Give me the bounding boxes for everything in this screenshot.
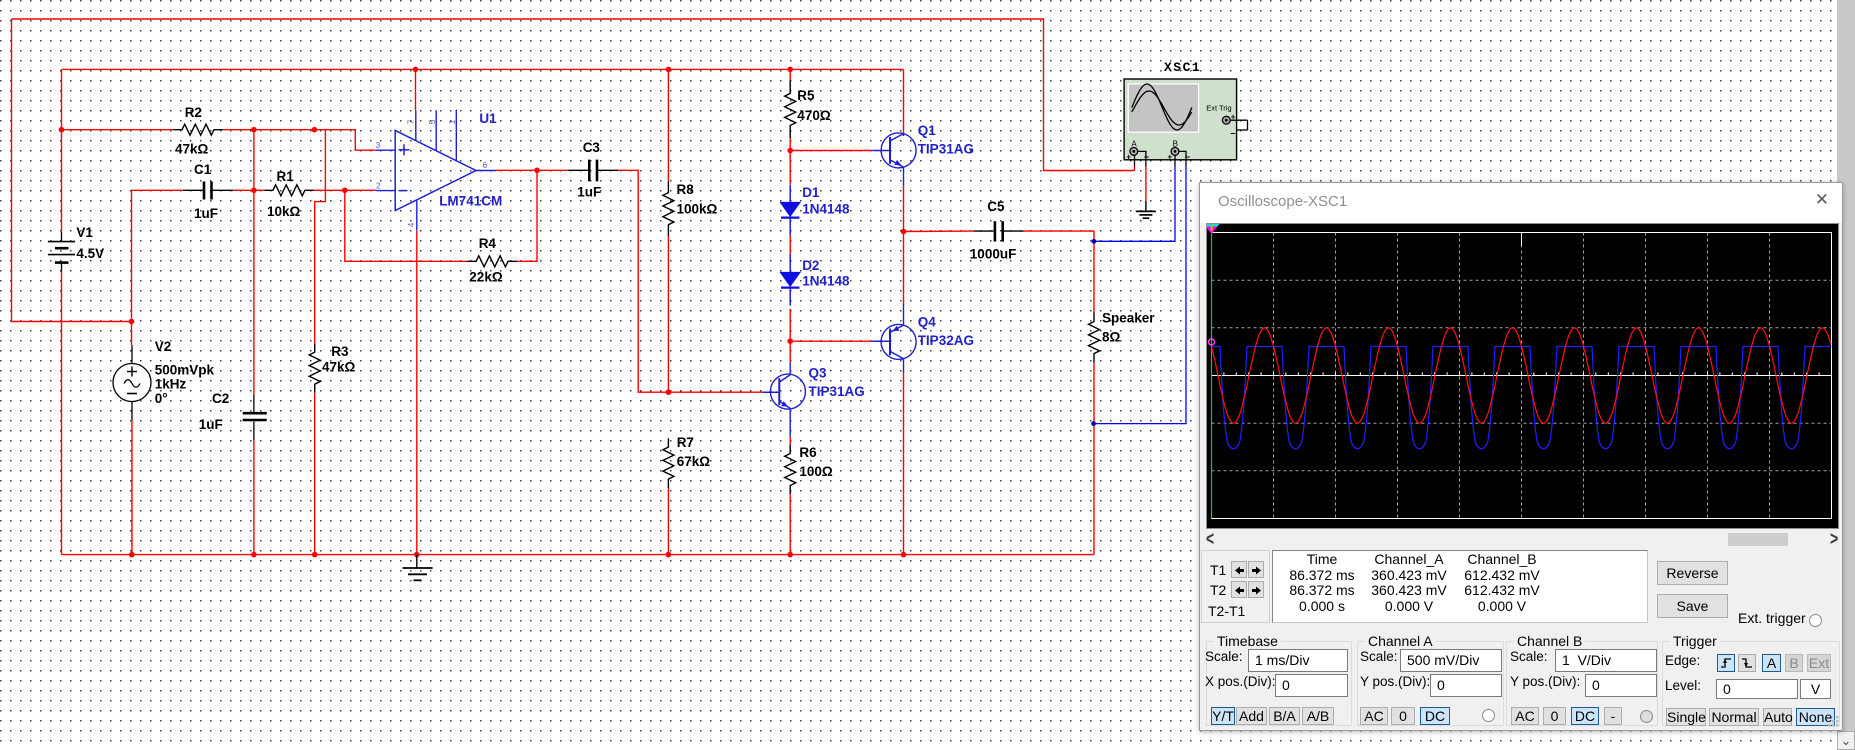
oscilloscope icon XSC1 bbox=[1124, 79, 1237, 160]
oscilloscope window bbox=[1199, 182, 1843, 731]
node R5 on rail bbox=[787, 67, 793, 73]
wire V1 branch vertical bbox=[61, 69, 63, 231]
trigger marker bbox=[1203, 223, 1220, 234]
resistor R4 bbox=[467, 256, 517, 267]
node Q4 base/D2 bbox=[787, 338, 793, 344]
svg-text:67kΩ: 67kΩ bbox=[677, 454, 711, 469]
wire Q1 emitter to output node bbox=[903, 185, 905, 232]
lead A+ bbox=[1134, 155, 1136, 166]
svg-text:4.5V: 4.5V bbox=[76, 246, 104, 261]
scope left cursor green bbox=[1211, 233, 1213, 519]
resistor R5 bbox=[785, 81, 796, 139]
wire C1 left stub bbox=[132, 189, 183, 191]
svg-text:100Ω: 100Ω bbox=[799, 464, 833, 479]
wire R7 bottom to rail bbox=[667, 488, 669, 555]
wire Q1 collector from rail bbox=[903, 69, 905, 133]
svg-text:R1: R1 bbox=[277, 169, 295, 184]
svg-text:+: + bbox=[1168, 153, 1173, 162]
svg-text:R2: R2 bbox=[185, 105, 202, 120]
svg-text:8Ω: 8Ω bbox=[1102, 330, 1121, 345]
svg-text:470Ω: 470Ω bbox=[797, 108, 831, 123]
resistor R2 bbox=[173, 124, 223, 135]
node Q1 base/D1 bbox=[787, 148, 793, 154]
wire C2 branch vertical bbox=[253, 130, 255, 395]
node R8 on rail bbox=[666, 67, 672, 73]
wire D1 top bbox=[789, 151, 791, 185]
wire C5 to speaker bbox=[1024, 231, 1094, 312]
scope plot frame bbox=[1212, 233, 1832, 519]
Save button bbox=[1657, 594, 1728, 618]
svg-text:R6: R6 bbox=[799, 445, 817, 460]
horizontal scroll strip bbox=[1202, 530, 1842, 548]
wire node to C5 bbox=[904, 230, 974, 232]
op-amp U1 bbox=[395, 130, 476, 210]
wire D1-D2 link bbox=[789, 236, 791, 255]
wire output node to Q4 emitter bbox=[903, 232, 905, 305]
wire Q4 collector to rail bbox=[903, 372, 905, 555]
capacitor C3 bbox=[568, 169, 588, 171]
lead A- bbox=[1138, 151, 1146, 166]
node B- tap bbox=[1091, 421, 1096, 426]
resistor R6 bbox=[785, 445, 796, 494]
node R7 on rail bbox=[666, 552, 672, 558]
svg-text:Ext Trig: Ext Trig bbox=[1206, 104, 1231, 113]
channel B wave blue bbox=[1212, 347, 1832, 449]
Ext trigger bbox=[1738, 610, 1806, 626]
source V2 bbox=[131, 345, 133, 364]
node R6 on rail bbox=[787, 552, 793, 558]
battery V1 bbox=[61, 232, 63, 242]
svg-text:500mVpk: 500mVpk bbox=[155, 363, 215, 378]
node R7 top on base wire bbox=[666, 389, 672, 395]
wire C3 to Q3 base bbox=[618, 170, 763, 392]
node pin7 on rail bbox=[413, 67, 419, 73]
resistor R1 bbox=[264, 185, 313, 196]
svg-text:R5: R5 bbox=[797, 88, 815, 103]
svg-text:2: 2 bbox=[376, 181, 381, 191]
svg-text:V1: V1 bbox=[76, 225, 93, 240]
wire top outer loop to scope A bbox=[12, 19, 1135, 171]
node ground on rail bbox=[414, 552, 420, 558]
wire R2 row bbox=[62, 130, 376, 151]
node R2 left on V1 wire bbox=[59, 127, 65, 133]
node op-amp output bbox=[534, 168, 540, 174]
node C2 top crossing bbox=[251, 188, 257, 194]
scope center axis bbox=[1212, 375, 1832, 377]
svg-text:1: 1 bbox=[447, 119, 457, 124]
svg-text:XSC1: XSC1 bbox=[1164, 60, 1201, 75]
svg-text:1kHz: 1kHz bbox=[155, 377, 187, 392]
svg-text:C3: C3 bbox=[583, 140, 601, 155]
node R3 on rail bbox=[312, 552, 318, 558]
svg-text:R8: R8 bbox=[677, 182, 695, 197]
canvas vertical scrollbar bbox=[1837, 0, 1855, 750]
svg-text:R7: R7 bbox=[677, 435, 694, 450]
node R2 right bias bbox=[312, 127, 318, 133]
svg-text:6: 6 bbox=[483, 160, 488, 170]
wire scope A- to ground bbox=[1145, 167, 1147, 201]
resistor R7 bbox=[663, 438, 674, 488]
resistor R3 bbox=[309, 344, 320, 393]
wire pin7 supply bbox=[415, 69, 417, 110]
svg-text:R4: R4 bbox=[479, 236, 497, 251]
scope gridlines bbox=[1273, 233, 1275, 519]
svg-text:TIP31AG: TIP31AG bbox=[918, 142, 974, 157]
wire scope A+ stub bbox=[1134, 167, 1136, 171]
wire R8 to R7 bbox=[667, 236, 669, 392]
title bar bbox=[1200, 183, 1842, 223]
capacitor C5 bbox=[974, 230, 994, 232]
svg-text:R3: R3 bbox=[331, 344, 349, 359]
svg-text:Q4: Q4 bbox=[918, 315, 937, 330]
svg-text:7: 7 bbox=[406, 119, 416, 124]
wire V1 bottom to rail bbox=[61, 272, 63, 555]
ground scope bbox=[1145, 201, 1147, 212]
wire top supply rail bbox=[62, 68, 904, 70]
svg-text:1000uF: 1000uF bbox=[970, 247, 1017, 262]
svg-text:3: 3 bbox=[376, 140, 381, 150]
Reverse button bbox=[1657, 561, 1728, 585]
wire R4 loop bbox=[345, 170, 537, 261]
node output to C5 bbox=[901, 229, 907, 235]
Channel B group bbox=[1506, 641, 1658, 726]
svg-text:1N4148: 1N4148 bbox=[802, 274, 850, 289]
transistor Q1 bbox=[881, 133, 916, 168]
wire Q3 emitter to R6 bbox=[789, 437, 791, 445]
wire D2 to Q4 base node bbox=[789, 309, 791, 363]
wire C1 to R1 bbox=[233, 189, 264, 191]
svg-text:4: 4 bbox=[406, 222, 416, 227]
svg-text:C5: C5 bbox=[987, 199, 1005, 214]
Trigger group bbox=[1662, 641, 1840, 726]
measurement box bbox=[1272, 550, 1648, 623]
svg-text:47kΩ: 47kΩ bbox=[175, 142, 209, 157]
wire scope B- to speaker bottom bbox=[1094, 166, 1186, 424]
capacitor C1 bbox=[183, 189, 203, 191]
node V2 bottom on rail bbox=[129, 552, 135, 558]
wire pin4 to ground rail bbox=[416, 231, 418, 555]
lead B+ bbox=[1174, 155, 1176, 166]
wire R5 top bbox=[789, 69, 791, 80]
wire R5 to node bbox=[789, 138, 791, 150]
node C2 on rail bbox=[251, 552, 257, 558]
wire R1 to pin2 bbox=[314, 189, 377, 191]
svg-text:1N4148: 1N4148 bbox=[802, 202, 850, 217]
node junction V2 top bbox=[129, 319, 135, 325]
transistor Q3 bbox=[770, 374, 805, 409]
resistor Speaker bbox=[1089, 312, 1100, 362]
wire output to C3 bbox=[496, 169, 568, 171]
wire left outer loop bbox=[12, 19, 132, 322]
wire scope B+ to C5 node bbox=[1094, 166, 1175, 241]
resistor R8 bbox=[663, 181, 674, 236]
svg-text:1uF: 1uF bbox=[199, 417, 223, 432]
svg-text:−: − bbox=[1230, 129, 1235, 139]
svg-text:TIP31AG: TIP31AG bbox=[809, 384, 865, 399]
svg-text:V2: V2 bbox=[155, 339, 172, 354]
svg-text:10kΩ: 10kΩ bbox=[267, 204, 301, 219]
wire R3 bottom to rail bbox=[314, 393, 316, 555]
svg-text:22kΩ: 22kΩ bbox=[469, 270, 503, 285]
wire R6 bottom to rail bbox=[789, 494, 791, 555]
svg-text:100kΩ: 100kΩ bbox=[677, 202, 718, 217]
svg-text:Q1: Q1 bbox=[918, 123, 937, 138]
svg-text:LM741CM: LM741CM bbox=[439, 194, 502, 209]
diode D2 bbox=[780, 272, 800, 286]
ground main bbox=[416, 555, 418, 568]
terminal ExtTrig bbox=[1222, 116, 1230, 124]
svg-text:1uF: 1uF bbox=[577, 185, 601, 200]
scope top center marker bbox=[1521, 233, 1523, 247]
node R2-C2 branch bbox=[251, 127, 257, 133]
wire C2 bottom to rail bbox=[253, 440, 255, 555]
wire ground rail bbox=[62, 554, 1095, 556]
wire R8 top bbox=[667, 69, 669, 181]
svg-text:Speaker: Speaker bbox=[1102, 311, 1155, 326]
node Q4 on rail bbox=[901, 552, 907, 558]
svg-text:C1: C1 bbox=[194, 162, 212, 177]
svg-text:5: 5 bbox=[427, 119, 437, 124]
lead B- bbox=[1179, 151, 1186, 166]
svg-text:47kΩ: 47kΩ bbox=[322, 360, 356, 375]
capacitor C2 bbox=[253, 395, 255, 412]
Timebase group bbox=[1206, 641, 1352, 726]
svg-text:Q3: Q3 bbox=[809, 366, 828, 381]
svg-text:1uF: 1uF bbox=[194, 206, 218, 221]
scope display bbox=[1206, 223, 1839, 529]
svg-text:TIP32AG: TIP32AG bbox=[918, 333, 974, 348]
svg-text:+: + bbox=[1126, 153, 1131, 162]
wire V2 bottom to ground rail bbox=[131, 420, 133, 555]
wire bias to R3 jog bbox=[315, 130, 326, 344]
svg-text:C2: C2 bbox=[212, 391, 229, 406]
Channel A group bbox=[1357, 641, 1504, 726]
node inverting input bbox=[342, 188, 348, 194]
channel A wave red bbox=[1212, 328, 1832, 423]
T1/T2 box bbox=[1201, 550, 1270, 623]
svg-text:D1: D1 bbox=[802, 185, 820, 200]
wire Q4 base bbox=[790, 340, 872, 342]
transistor Q4 bbox=[881, 324, 916, 359]
svg-text:D2: D2 bbox=[802, 258, 819, 273]
svg-text:0°: 0° bbox=[155, 391, 168, 406]
channel B marker bbox=[1209, 339, 1215, 345]
node B+ tap bbox=[1092, 239, 1097, 244]
wire Q1 base bbox=[790, 150, 872, 152]
svg-text:U1: U1 bbox=[479, 111, 497, 126]
wire speaker bottom bbox=[1093, 363, 1095, 555]
wire C1-left down to V2 top bbox=[131, 190, 133, 345]
diode D1 bbox=[780, 202, 800, 216]
